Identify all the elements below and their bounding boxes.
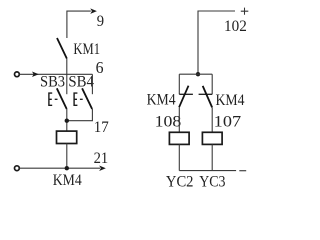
wire: branch bus horizontal xyxy=(179,73,212,75)
coil YC2 rectangle xyxy=(169,132,189,144)
svg-text:102: 102 xyxy=(224,18,247,35)
pushbutton SB4 operator E xyxy=(74,93,77,105)
svg-text:YC3: YC3 xyxy=(199,174,225,191)
wire: YC2 bottom to minus rail xyxy=(178,144,180,170)
svg-text:17: 17 xyxy=(94,119,109,136)
wire: KM1 bottom through junction to SB3 stub xyxy=(66,59,68,95)
wire: bottom horizontal rail xyxy=(20,167,100,169)
wire: top-left feeder vertical with corner to arrow xyxy=(67,11,91,38)
contact KM4 right: seat tick xyxy=(199,93,213,95)
contact KM4 left: seat tick xyxy=(179,93,193,95)
terminal circle left middle xyxy=(15,72,20,77)
svg-text:108: 108 xyxy=(155,113,182,130)
wire: right feeder vertical with corner to plus terminal xyxy=(198,11,235,74)
junction dot node 17 xyxy=(65,119,69,123)
pushbutton SB4 blade xyxy=(82,88,92,109)
wire: bottom minus rail xyxy=(179,170,236,172)
coil YC3 rectangle xyxy=(202,132,222,144)
arrow to node 21 xyxy=(99,165,106,171)
svg-text:SB3: SB3 xyxy=(40,74,65,91)
contact KM4 left: blade xyxy=(179,86,188,108)
contactor contact KM1 blade xyxy=(57,38,67,59)
pushbutton SB3 operator dash link xyxy=(55,98,58,100)
plus sign xyxy=(241,8,249,15)
wire: SB4 top stub xyxy=(91,74,93,94)
svg-text:KM4: KM4 xyxy=(53,172,82,189)
wire: SB3 bottom to coil xyxy=(66,109,68,131)
wire: right blade bottom to coil YC3 xyxy=(211,107,213,132)
wire: YC3 bottom to minus rail xyxy=(211,144,213,170)
svg-text:YC2: YC2 xyxy=(166,174,194,191)
svg-text:KM4: KM4 xyxy=(216,92,245,109)
pushbutton SB3 blade xyxy=(57,88,67,109)
svg-text:SB4: SB4 xyxy=(68,74,94,91)
junction dot bottom xyxy=(65,166,69,170)
wire: SB4 bottom down and left to node 17 xyxy=(67,109,93,121)
svg-text:6: 6 xyxy=(96,58,104,77)
svg-text:KM1: KM1 xyxy=(73,41,100,58)
svg-text:9: 9 xyxy=(97,13,104,30)
junction dot right feeder xyxy=(196,72,200,76)
arrow to node 9 xyxy=(90,8,97,14)
wire: coil bottom to bottom rail xyxy=(66,144,68,169)
contact KM4 right: blade xyxy=(203,86,212,108)
terminal circle bottom left xyxy=(15,166,20,171)
pushbutton SB4 operator dash link xyxy=(80,98,83,100)
svg-text:107: 107 xyxy=(214,113,241,130)
svg-text:KM4: KM4 xyxy=(147,91,176,108)
wire: left blade bottom to coil YC2 xyxy=(178,107,180,132)
svg-text:21: 21 xyxy=(94,150,109,167)
minus sign xyxy=(239,170,246,172)
wire: horizontal from terminal to SB4 corner xyxy=(20,73,93,75)
coil KM4 rectangle xyxy=(57,131,77,143)
pushbutton SB3 operator E xyxy=(49,93,52,105)
wire: left branch stub xyxy=(178,74,180,94)
arrow on horizontal feeder xyxy=(32,72,39,78)
wire: right branch stub xyxy=(211,74,213,94)
